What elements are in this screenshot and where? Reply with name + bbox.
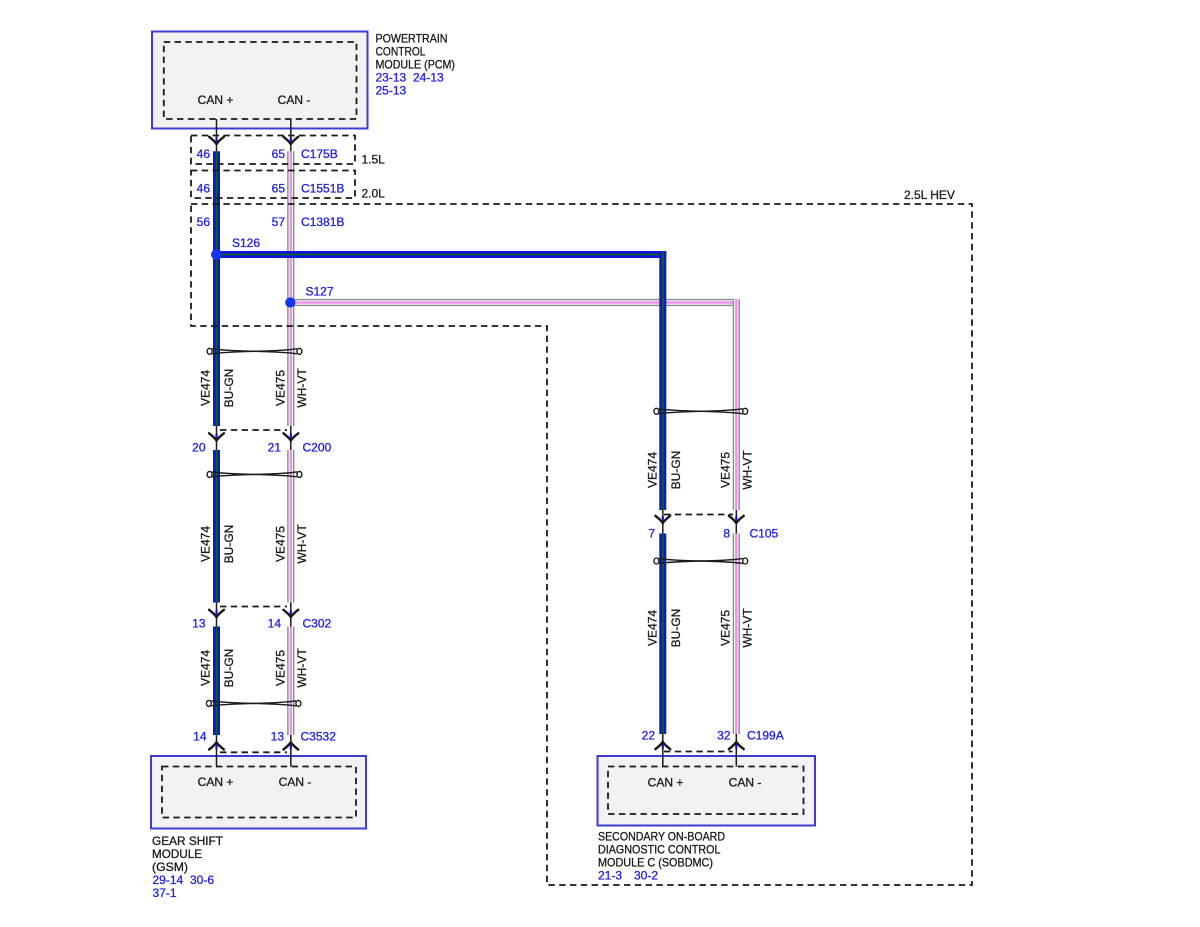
wire VE474 BU-GN left vertical segment PCM to C200 xyxy=(213,151,220,426)
svg-text:13: 13 xyxy=(271,729,285,743)
svg-text:C1551B: C1551B xyxy=(301,182,344,196)
wire label WH-VT left segment 1 xyxy=(295,368,309,408)
connector C175B label xyxy=(301,147,338,161)
wire label VE475 left segment 2 xyxy=(274,526,288,562)
wire VE474 BU-GN right vertical segment S126 to C105 xyxy=(659,251,666,510)
svg-text:24-13: 24-13 xyxy=(413,71,444,85)
svg-text:VE475: VE475 xyxy=(274,370,288,406)
wire label VE474 left segment 2 xyxy=(199,526,213,562)
module SOBDMC CAN+ label xyxy=(648,776,684,790)
module GSM CAN+ label xyxy=(198,775,234,789)
svg-text:VE474: VE474 xyxy=(646,452,660,488)
connector C3532 pin 13 arrow into GSM xyxy=(283,735,298,767)
wire label BU-GN right segment 1 xyxy=(669,451,683,490)
connector C200 dashed line xyxy=(220,429,287,431)
connector C105 dashed line xyxy=(664,514,733,516)
module PCM (Powertrain Control Module) box xyxy=(152,32,368,129)
svg-text:S127: S127 xyxy=(306,285,334,299)
svg-text:CAN -: CAN - xyxy=(279,775,312,789)
connector C200 pin 21 arrow xyxy=(283,426,298,450)
connector C199A pin 32 arrow into SOBDMC xyxy=(729,734,744,767)
svg-text:BU-GN: BU-GN xyxy=(222,649,236,688)
svg-text:CAN +: CAN + xyxy=(198,93,234,107)
svg-text:C200: C200 xyxy=(303,441,332,455)
twisted pair symbol right upper xyxy=(654,408,748,414)
label 2.0L xyxy=(362,187,386,201)
wire label VE474 left segment 1 xyxy=(199,370,213,406)
connector C175B dashed box xyxy=(191,136,355,165)
svg-text:21: 21 xyxy=(268,441,282,455)
module GSM (Gear Shift Module) box xyxy=(151,756,366,829)
module PCM name xyxy=(376,32,456,72)
svg-text:BU-GN: BU-GN xyxy=(669,451,683,490)
connector C105 pin 8 xyxy=(723,526,730,540)
svg-text:7: 7 xyxy=(648,526,655,540)
svg-text:32: 32 xyxy=(717,729,731,743)
svg-text:VE474: VE474 xyxy=(199,370,213,406)
svg-text:C1381B: C1381B xyxy=(301,215,344,229)
wire label VE474 right segment 2 xyxy=(646,610,660,646)
svg-text:C302: C302 xyxy=(303,617,332,631)
wire VE475 WH-VT right vertical segment C105 to C199A xyxy=(733,534,740,735)
module PCM page refs xyxy=(376,71,445,98)
svg-text:POWERTRAIN: POWERTRAIN xyxy=(376,32,448,46)
module PCM CAN+ label xyxy=(198,93,234,107)
svg-text:CAN -: CAN - xyxy=(278,93,311,107)
svg-text:23-13: 23-13 xyxy=(376,71,407,85)
twisted pair symbol left lower xyxy=(206,700,301,706)
module PCM CAN- label xyxy=(278,93,311,107)
connector C175B pin 65 xyxy=(272,147,286,161)
module SOBDMC CAN- label xyxy=(729,776,762,790)
connector C105 label xyxy=(750,526,779,540)
wire VE475 WH-VT left vertical segment C302 to C3532 xyxy=(287,627,294,736)
connector C1551B label xyxy=(301,182,344,196)
connector C1551B pin 65 xyxy=(272,182,286,196)
connector C3532 label xyxy=(301,730,337,744)
svg-text:WH-VT: WH-VT xyxy=(295,368,309,408)
svg-text:BU-GN: BU-GN xyxy=(222,369,236,408)
svg-text:C199A: C199A xyxy=(747,729,784,743)
svg-text:WH-VT: WH-VT xyxy=(741,450,755,490)
connector C105 pin 8 arrow xyxy=(729,510,744,534)
svg-text:DIAGNOSTIC CONTROL: DIAGNOSTIC CONTROL xyxy=(598,843,721,857)
connector C105 pin 7 xyxy=(648,526,655,540)
svg-text:VE474: VE474 xyxy=(199,650,213,686)
svg-text:C105: C105 xyxy=(750,526,779,540)
svg-text:S126: S126 xyxy=(232,236,260,250)
splice S127 label xyxy=(306,285,334,299)
svg-text:25-13: 25-13 xyxy=(376,84,407,98)
connector C3532 pin 14 arrow into GSM xyxy=(209,735,224,767)
connector C1381B pin 56 xyxy=(197,215,211,229)
wire label VE474 right segment 1 xyxy=(646,452,660,488)
connector C199A pin 32 xyxy=(717,729,731,743)
connector C175B pin 46 xyxy=(197,147,211,161)
svg-text:WH-VT: WH-VT xyxy=(741,608,755,648)
splice S126 label xyxy=(232,236,260,250)
svg-text:CONTROL: CONTROL xyxy=(376,45,426,59)
module GSM name xyxy=(152,834,224,874)
module GSM CAN- label xyxy=(279,775,312,789)
wire label VE475 right segment 2 xyxy=(719,610,733,646)
wire label VE474 left segment 3 xyxy=(199,650,213,686)
svg-text:VE474: VE474 xyxy=(199,526,213,562)
connector C3532 pin 13 xyxy=(271,729,285,743)
wire VE475 WH-VT left vertical segment C200 to C302 xyxy=(287,450,294,603)
svg-text:65: 65 xyxy=(272,182,286,196)
twisted pair symbol right lower xyxy=(654,558,748,564)
label 2.5L HEV xyxy=(904,188,955,202)
svg-text:C3532: C3532 xyxy=(301,730,337,744)
wire label WH-VT left segment 2 xyxy=(295,524,309,564)
svg-text:VE475: VE475 xyxy=(719,452,733,488)
wire label BU-GN right segment 2 xyxy=(669,609,683,648)
connector C200 pin 20 xyxy=(192,441,206,455)
svg-text:VE475: VE475 xyxy=(719,610,733,646)
svg-text:CAN +: CAN + xyxy=(648,776,684,790)
svg-text:(GSM): (GSM) xyxy=(152,860,188,874)
wire label VE475 left segment 3 xyxy=(274,650,288,686)
svg-text:30-6: 30-6 xyxy=(190,873,214,887)
svg-text:46: 46 xyxy=(197,147,211,161)
wire VE474 BU-GN left vertical segment C302 to C3532 xyxy=(213,627,220,736)
svg-text:WH-VT: WH-VT xyxy=(295,524,309,564)
svg-text:GEAR SHIFT: GEAR SHIFT xyxy=(152,834,224,848)
wire VE475 WH-VT right vertical segment S127 to C105 xyxy=(733,299,740,510)
wire VE474 BU-GN right vertical segment C105 to C199A xyxy=(659,534,666,735)
svg-text:57: 57 xyxy=(272,215,286,229)
connector C199A pin 22 arrow into SOBDMC xyxy=(655,734,670,767)
svg-text:56: 56 xyxy=(197,215,211,229)
svg-text:BU-GN: BU-GN xyxy=(669,609,683,648)
svg-text:BU-GN: BU-GN xyxy=(222,525,236,564)
connector C199A label xyxy=(747,729,784,743)
connector C1381B label xyxy=(301,215,344,229)
wire label VE475 left segment 1 xyxy=(274,370,288,406)
svg-text:14: 14 xyxy=(193,729,207,743)
svg-text:8: 8 xyxy=(723,526,730,540)
wire VE475 WH-VT left vertical segment PCM to C200 xyxy=(287,151,294,426)
2.5L HEV dashed region outline xyxy=(191,204,972,885)
svg-text:CAN +: CAN + xyxy=(198,775,234,789)
splice S126 xyxy=(211,249,222,260)
connector C3532 dashed line xyxy=(220,751,287,753)
svg-text:14: 14 xyxy=(268,617,282,631)
wire label WH-VT left segment 3 xyxy=(295,648,309,688)
svg-text:SECONDARY ON-BOARD: SECONDARY ON-BOARD xyxy=(598,830,725,844)
connector C1551B pin 46 xyxy=(197,182,211,196)
connector C200 pin 21 xyxy=(268,441,282,455)
svg-text:VE475: VE475 xyxy=(274,650,288,686)
connector C302 pin 14 xyxy=(268,617,282,631)
svg-text:WH-VT: WH-VT xyxy=(295,648,309,688)
splice S127 xyxy=(285,297,295,307)
connector C199A pin 22 xyxy=(642,729,656,743)
svg-text:MODULE (PCM): MODULE (PCM) xyxy=(376,58,456,72)
svg-text:VE474: VE474 xyxy=(646,610,660,646)
svg-text:65: 65 xyxy=(272,147,286,161)
connector C105 pin 7 arrow xyxy=(655,510,670,534)
module SOBDMC page refs xyxy=(598,869,658,883)
connector C302 pin 13 arrow xyxy=(209,603,224,627)
connector C302 dashed line xyxy=(220,606,287,608)
wire label VE475 right segment 1 xyxy=(719,452,733,488)
svg-text:MODULE C (SOBDMC): MODULE C (SOBDMC) xyxy=(598,856,713,870)
svg-text:2.5L HEV: 2.5L HEV xyxy=(904,188,955,202)
wire lead CAN- from PCM with arrow xyxy=(283,119,298,151)
module GSM page refs xyxy=(153,873,215,900)
svg-text:C175B: C175B xyxy=(301,147,338,161)
connector C1551B dashed box xyxy=(191,171,355,199)
svg-text:MODULE: MODULE xyxy=(152,847,202,861)
wire label BU-GN left segment 3 xyxy=(222,649,236,688)
wire VE474 BU-GN left vertical segment C200 to C302 xyxy=(213,450,220,603)
connector C302 pin 14 arrow xyxy=(283,603,298,627)
module SOBDMC box xyxy=(598,756,816,826)
connector C200 pin 20 arrow xyxy=(209,426,224,450)
wire label WH-VT right segment 1 xyxy=(741,450,755,490)
svg-text:CAN -: CAN - xyxy=(729,776,762,790)
wire VE474 BU-GN horizontal from splice S126 to right branch xyxy=(213,251,667,258)
wire VE475 WH-VT horizontal from splice S127 to right branch xyxy=(287,299,740,306)
connector C302 label xyxy=(303,617,332,631)
connector C302 pin 13 xyxy=(192,617,206,631)
connector C3532 pin 14 xyxy=(193,729,207,743)
connector C1381B pin 57 xyxy=(272,215,286,229)
svg-text:22: 22 xyxy=(642,729,656,743)
wire label WH-VT right segment 2 xyxy=(741,608,755,648)
twisted pair symbol left upper xyxy=(207,348,302,354)
wire label BU-GN left segment 2 xyxy=(222,525,236,564)
twisted pair symbol left middle xyxy=(207,471,302,477)
module SOBDMC name xyxy=(598,830,725,870)
label 1.5L xyxy=(362,153,386,167)
svg-text:VE475: VE475 xyxy=(274,526,288,562)
svg-text:20: 20 xyxy=(192,441,206,455)
wire lead CAN+ from PCM with arrow xyxy=(209,119,224,151)
svg-text:46: 46 xyxy=(197,182,211,196)
connector C200 label xyxy=(303,441,332,455)
svg-text:21-3: 21-3 xyxy=(598,869,622,883)
svg-text:13: 13 xyxy=(192,617,206,631)
svg-text:2.0L: 2.0L xyxy=(362,187,386,201)
svg-text:29-14: 29-14 xyxy=(153,873,184,887)
wire label BU-GN left segment 1 xyxy=(222,369,236,408)
connector C199A dashed line xyxy=(664,751,733,753)
svg-text:1.5L: 1.5L xyxy=(362,153,386,167)
svg-text:30-2: 30-2 xyxy=(634,869,658,883)
svg-text:37-1: 37-1 xyxy=(153,886,177,900)
